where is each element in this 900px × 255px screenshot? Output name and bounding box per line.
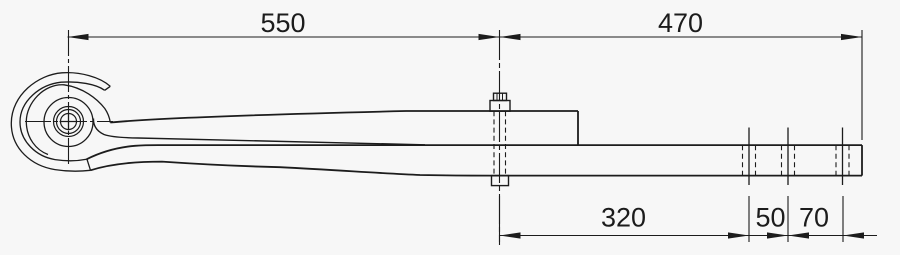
hole crosshair [60,113,78,131]
wire: second leaf top edge / contact line [87,145,863,159]
bolt head [490,101,510,112]
wire: wrap leaf outer edge [11,73,110,172]
hole 2 centerline [787,128,789,186]
hole 3 centerline [842,128,844,186]
svg-text:470: 470 [658,8,703,38]
wire: main leaf bottom edge [93,119,425,145]
arrow outside at hole3 pointing left [843,232,864,238]
extension line below hole 1 [748,196,750,242]
wire: main leaf curl outer arc [26,85,110,155]
bolt head top [494,93,507,100]
extension line right end [861,30,863,140]
arrow at bolt pointing left [500,232,521,238]
hole 2 hidden edges [782,145,795,175]
arrow pair at hole2 [767,232,788,238]
dimension line top (550 / 470) [68,36,863,38]
wire: wrap transition cap bottom right [87,159,91,170]
wire: wrap end cap top right [105,86,111,90]
wire: main leaf end step [577,111,579,145]
hole 1 centerline [748,128,750,186]
wire: main leaf top edge [110,111,578,123]
svg-text:550: 550 [260,8,305,38]
arrow at hole1 pointing right [728,232,749,238]
hole 1 hidden edges [743,145,756,175]
extension line below hole 2 [787,196,789,242]
hole 3 hidden edges [836,145,849,175]
node: eye bushing hole circle [61,114,77,130]
svg-text:50: 50 [755,203,785,233]
bolt nut [492,176,509,186]
extension line below hole 3 [842,196,844,242]
wire: leaf right end edge [861,145,863,176]
svg-text:70: 70 [799,203,829,233]
node: bushing sleeve inner circle [57,110,81,134]
arrow left at eye [68,34,89,40]
svg-text:320: 320 [601,203,646,233]
bolt centerline [499,30,501,245]
node: eye inner circle [44,98,93,147]
extension line below bolt [499,196,501,242]
bolt shank hidden dashed lines [494,111,506,175]
arrow right end [841,34,862,40]
wire: eye vertical centerline / 550 extension line [68,30,70,167]
arrow pair at bolt centerline [479,34,500,40]
wire: second leaf bottom edge [91,162,863,176]
bolt head chamfer marks [497,93,503,100]
wire: eye horizontal centerline [25,121,113,123]
dimension line bottom (320 / 50 / 70) [500,235,878,237]
node: bushing sleeve outer circle [54,107,84,137]
wire: wrap leaf inner edge [20,82,105,161]
